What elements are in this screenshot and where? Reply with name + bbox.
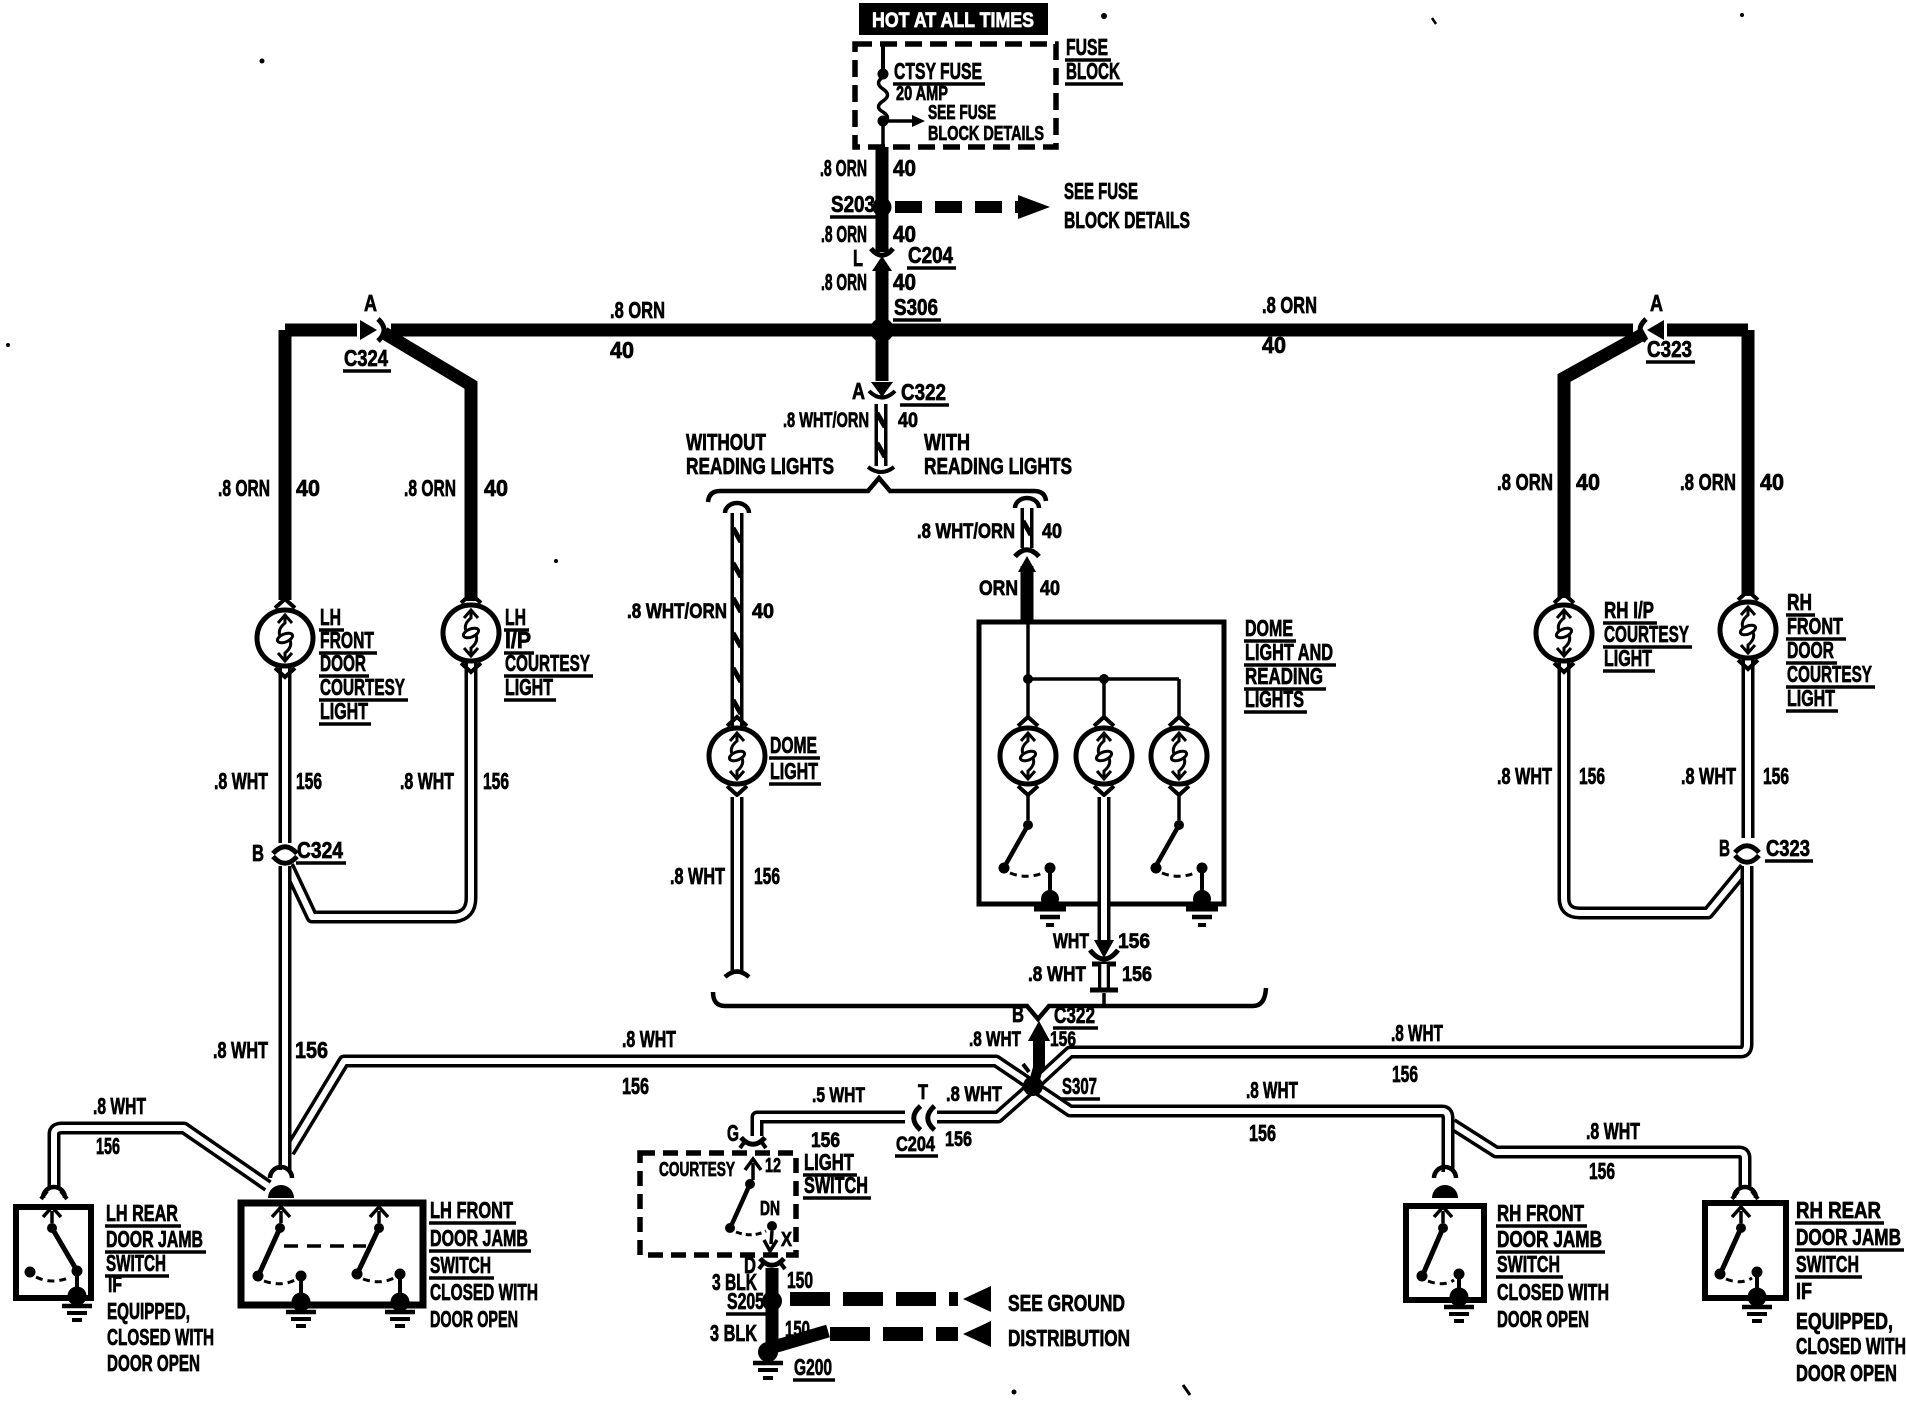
svg-text:BLOCK DETAILS: BLOCK DETAILS (1064, 207, 1190, 233)
svg-text:.8 WHT: .8 WHT (1391, 1020, 1443, 1046)
svg-text:LIGHTS: LIGHTS (1245, 686, 1304, 712)
svg-text:WITHOUT: WITHOUT (686, 429, 766, 455)
svg-text:RH I/P: RH I/P (1604, 597, 1654, 623)
svg-text:S306: S306 (894, 294, 938, 320)
svg-text:A: A (852, 378, 865, 404)
noise specks (1101, 13, 1107, 19)
svg-text:C322: C322 (901, 379, 946, 405)
wire: .8 WHT 156 RH front door light to C323 (1742, 656, 1755, 838)
svg-text:156: 156 (296, 768, 322, 794)
svg-text:C324: C324 (297, 837, 343, 863)
connector cap (with reading lights branch) (1015, 498, 1039, 508)
wire: .8 ORN 40 to RH front door courtesy light (1742, 330, 1755, 596)
svg-text:40: 40 (1042, 520, 1062, 543)
svg-text:G200: G200 (794, 1354, 832, 1380)
ground: LH front 1 (286, 1310, 316, 1315)
svg-text:150: 150 (787, 1267, 813, 1293)
junction: fuse top (878, 69, 889, 80)
svg-text:S205: S205 (727, 1288, 764, 1314)
ground stud (1193, 890, 1211, 908)
svg-text:156: 156 (1579, 763, 1605, 789)
svg-text:.8 ORN: .8 ORN (821, 269, 867, 295)
svg-text:DOME: DOME (1245, 615, 1293, 641)
connector C204 pin T (in-line) (905, 1106, 937, 1130)
svg-text:READING LIGHTS: READING LIGHTS (686, 453, 834, 479)
svg-text:.8 ORN: .8 ORN (820, 155, 867, 181)
svg-text:156: 156 (1122, 963, 1152, 986)
brace: reading lights merge (bottom) (713, 988, 1266, 1019)
svg-text:DOOR JAMB: DOOR JAMB (1796, 1224, 1901, 1250)
svg-text:C324: C324 (344, 345, 388, 371)
switch: RH reading light (1177, 796, 1181, 820)
arrow: see fuse block details (inside box) (883, 119, 912, 123)
wire: .8 WHT 156 LH I/P light to C324 (288, 662, 471, 917)
svg-text:.8 ORN: .8 ORN (218, 475, 270, 501)
svg-text:.8 WHT: .8 WHT (1497, 763, 1552, 789)
lamp: RH I/P courtesy light (1536, 594, 1592, 672)
ground (1034, 907, 1066, 912)
svg-text:.8 WHT/ORN: .8 WHT/ORN (917, 520, 1015, 543)
svg-text:.8 ORN: .8 ORN (1262, 292, 1317, 318)
brace: without/with reading lights split (708, 478, 1046, 502)
svg-text:.8 WHT: .8 WHT (1586, 1118, 1640, 1144)
svg-text:SWITCH: SWITCH (804, 1172, 868, 1198)
svg-text:SEE FUSE: SEE FUSE (1064, 178, 1138, 204)
wire: .8 ORN 40 to LH front door courtesy light (279, 330, 292, 600)
svg-text:CLOSED WITH: CLOSED WITH (1497, 1279, 1609, 1305)
svg-text:L: L (853, 245, 863, 271)
svg-text:DOOR: DOOR (320, 650, 366, 676)
junction (1099, 674, 1109, 684)
svg-text:G: G (727, 1120, 739, 1146)
svg-text:DOME: DOME (770, 732, 817, 758)
svg-text:C322: C322 (1054, 1002, 1095, 1028)
svg-text:C323: C323 (1647, 336, 1692, 362)
ground: RH rear (1742, 1305, 1772, 1310)
fuse block dashed box (855, 44, 1056, 147)
connector: LH rear door jamb switch (43, 1187, 65, 1198)
dome light and reading lights module box (979, 622, 1224, 904)
off-page arrow: see fuse block details (895, 201, 1018, 213)
svg-text:B: B (1012, 1001, 1024, 1027)
svg-text:.8 WHT: .8 WHT (670, 863, 725, 889)
wire: inside box feed (1026, 622, 1030, 679)
wire: .8 WHT 156 RH I/P light to C323 (1564, 658, 1745, 913)
ground stud (391, 1293, 410, 1312)
wire: .8 ORN 40 to RH I/P courtesy light (1564, 333, 1645, 598)
svg-text:156: 156 (1589, 1158, 1615, 1184)
svg-text:X: X (781, 1229, 793, 1251)
svg-text:.8 WHT/ORN: .8 WHT/ORN (627, 600, 727, 623)
fuse CTSY FUSE element (squiggle) (879, 77, 888, 123)
svg-text:C323: C323 (1766, 835, 1810, 861)
svg-text:DOOR OPEN: DOOR OPEN (430, 1306, 518, 1332)
in-line connector pair below module (1094, 940, 1114, 958)
RH rear door jamb switch box (1705, 1203, 1786, 1298)
lamp: RH front door courtesy light (1720, 591, 1776, 669)
switch: courtesy contact (745, 1159, 761, 1170)
svg-text:RH REAR: RH REAR (1796, 1197, 1881, 1223)
svg-text:DOOR OPEN: DOOR OPEN (1796, 1360, 1897, 1386)
connector cap (without reading lights branch) (725, 503, 749, 513)
svg-text:COURTESY: COURTESY (1787, 661, 1872, 687)
svg-text:DOOR JAMB: DOOR JAMB (430, 1225, 528, 1251)
wire: .8 WHT 156 C323 to S307 (1033, 866, 1747, 1086)
svg-text:.8 WHT: .8 WHT (969, 1028, 1021, 1051)
svg-text:.8 ORN: .8 ORN (821, 221, 867, 247)
svg-text:C204: C204 (896, 1133, 935, 1156)
svg-text:SWITCH: SWITCH (1796, 1251, 1859, 1277)
wire: WHT 156 module dome lamp out (1098, 797, 1111, 942)
wire: .8 WHT/ORN 40 C322 to split (875, 404, 888, 466)
connector C204 pin L (in-line) (871, 249, 893, 256)
wire: .8 WHT 156 S307 to LH door switches (289, 1061, 1033, 1152)
lamp: reading light LH (1000, 717, 1056, 795)
wire: .8 WHT 156 LH front door light to C324 (279, 668, 292, 845)
ground stud (1748, 1288, 1767, 1307)
svg-text:LIGHT: LIGHT (320, 698, 368, 724)
connector: LH front door jamb switch cap (270, 1167, 292, 1178)
svg-text:SWITCH: SWITCH (430, 1252, 491, 1278)
svg-text:40: 40 (1760, 469, 1784, 495)
label: HOT AT ALL TIMES box (859, 3, 1048, 35)
connector C323 pin A (1633, 321, 1667, 340)
svg-text:40: 40 (484, 475, 508, 501)
svg-text:.8 ORN: .8 ORN (1680, 469, 1736, 495)
wire: .8 WHT 156 C324 to LH front door jamb switch (279, 866, 292, 1170)
connector C322 pin B (up arrow) (1028, 1021, 1050, 1041)
light switch dashed box (640, 1153, 796, 1255)
connector C322 pin A (871, 382, 893, 397)
svg-text:156: 156 (1118, 930, 1150, 953)
wire: .8 ORN 40 to LH I/P courtesy light (384, 333, 471, 601)
svg-text:S203: S203 (831, 191, 875, 217)
svg-text:.8 WHT: .8 WHT (1028, 963, 1086, 986)
svg-text:12: 12 (765, 1155, 781, 1177)
svg-text:DOOR OPEN: DOOR OPEN (1497, 1306, 1589, 1332)
svg-text:IF: IF (1796, 1278, 1812, 1304)
wire: .8 WHT/ORN 40 to connector (1021, 508, 1034, 548)
svg-text:HOT AT ALL TIMES: HOT AT ALL TIMES (872, 9, 1034, 32)
RH front door jamb switch box (1406, 1206, 1484, 1300)
svg-text:.5 WHT: .5 WHT (812, 1084, 865, 1107)
svg-text:DISTRIBUTION: DISTRIBUTION (1008, 1325, 1130, 1351)
junction: fuse bottom (878, 116, 889, 127)
svg-text:SWITCH: SWITCH (1497, 1251, 1560, 1277)
LH rear door jamb switch box (16, 1207, 91, 1298)
wire: .8 WHT 156 branch to LH rear door jamb switch (54, 1128, 268, 1188)
splice S203 (873, 198, 892, 217)
wire: .8 ORN 40 C204 to S306 (876, 271, 889, 330)
lamp: dome light (709, 717, 765, 795)
ground G: LH rear (62, 1304, 92, 1309)
splice S307 (1023, 1076, 1043, 1096)
ground: RH front (1444, 1305, 1474, 1310)
svg-text:WITH: WITH (924, 429, 970, 455)
svg-text:LH REAR: LH REAR (106, 1200, 178, 1226)
svg-text:156: 156 (295, 1037, 328, 1063)
svg-text:T: T (918, 1081, 928, 1104)
svg-text:156: 156 (96, 1133, 120, 1159)
svg-text:LIGHT: LIGHT (1787, 685, 1835, 711)
connector: RH rear door jamb switch (1734, 1187, 1756, 1198)
wire: lamp feed rail (1028, 677, 1179, 681)
svg-text:FUSE: FUSE (1066, 34, 1108, 60)
svg-text:COURTESY: COURTESY (1604, 621, 1689, 647)
svg-text:.8 ORN: .8 ORN (404, 475, 456, 501)
svg-text:COURTESY: COURTESY (505, 650, 590, 676)
svg-text:156: 156 (1392, 1061, 1418, 1087)
ground: LH front 2 (385, 1310, 415, 1315)
wire: 3 BLK 150 light switch to G200 (766, 1268, 779, 1350)
svg-text:.8 WHT: .8 WHT (946, 1083, 1002, 1106)
svg-text:156: 156 (1249, 1120, 1276, 1146)
svg-text:CLOSED WITH: CLOSED WITH (1796, 1333, 1906, 1359)
svg-text:156: 156 (754, 863, 780, 889)
svg-text:C204: C204 (908, 242, 953, 268)
svg-text:DOOR OPEN: DOOR OPEN (107, 1350, 200, 1376)
svg-text:A: A (364, 290, 377, 316)
lamp: reading light RH (1151, 717, 1207, 795)
svg-text:156: 156 (1763, 763, 1789, 789)
svg-text:40: 40 (1040, 577, 1060, 600)
svg-text:COURTESY: COURTESY (659, 1159, 735, 1181)
svg-text:DOOR: DOOR (1787, 637, 1834, 663)
wire: .8 WHT 156 S307 to RH front door jamb switch (1033, 1086, 1448, 1172)
svg-text:BLOCK DETAILS: BLOCK DETAILS (928, 123, 1044, 145)
wire: .8 ORN 40 fuse to S203 (876, 147, 889, 252)
svg-text:FRONT: FRONT (1787, 613, 1843, 639)
svg-text:CLOSED WITH: CLOSED WITH (430, 1279, 538, 1305)
connector pin G (741, 1138, 765, 1145)
svg-text:SEE GROUND: SEE GROUND (1008, 1290, 1125, 1316)
svg-text:DN: DN (760, 1198, 780, 1220)
svg-text:40: 40 (296, 475, 320, 501)
svg-text:.8 WHT: .8 WHT (213, 1037, 268, 1063)
ground stud (1041, 890, 1059, 908)
svg-text:SEE FUSE: SEE FUSE (928, 102, 996, 124)
svg-text:B: B (1719, 835, 1730, 861)
svg-text:156: 156 (483, 768, 509, 794)
svg-text:DOOR JAMB: DOOR JAMB (1497, 1226, 1602, 1252)
svg-text:ORN: ORN (979, 577, 1018, 600)
junction (1023, 674, 1033, 684)
splice S205 (762, 1291, 782, 1311)
connector C324 pin A (357, 321, 391, 340)
svg-text:.8 WHT: .8 WHT (622, 1026, 676, 1052)
svg-text:READING LIGHTS: READING LIGHTS (924, 453, 1072, 479)
svg-text:40: 40 (893, 155, 916, 181)
svg-text:LIGHT: LIGHT (505, 674, 553, 700)
svg-text:.8 WHT: .8 WHT (400, 768, 454, 794)
wire: .8 WHT 156 branch to RH rear door jamb switch (1452, 1124, 1745, 1186)
svg-text:BLOCK: BLOCK (1066, 58, 1120, 84)
svg-text:CLOSED WITH: CLOSED WITH (107, 1324, 214, 1350)
svg-text:WHT: WHT (1053, 930, 1089, 953)
ground stud (68, 1287, 87, 1306)
svg-text:40: 40 (893, 269, 916, 295)
wire: .5 WHT 156 S307 to light switch (757, 1086, 1033, 1136)
svg-text:RH FRONT: RH FRONT (1497, 1200, 1584, 1226)
svg-text:40: 40 (1576, 469, 1600, 495)
svg-text:B: B (252, 840, 264, 866)
svg-text:EQUIPPED,: EQUIPPED, (107, 1298, 190, 1324)
svg-text:.8 ORN: .8 ORN (610, 297, 665, 323)
connector C323 pin B (1738, 842, 1756, 862)
ground stud (292, 1293, 311, 1312)
svg-text:156: 156 (622, 1073, 649, 1099)
wire: ORN 40 into dome/reading lights box (1021, 566, 1034, 622)
svg-text:.8 WHT: .8 WHT (1681, 763, 1736, 789)
wire: .8 ORN 40 main bus (285, 324, 1748, 337)
lamp: LH front door courtesy light (257, 599, 313, 677)
connector C324 pin B (276, 843, 294, 863)
svg-text:EQUIPPED,: EQUIPPED, (1796, 1308, 1893, 1334)
svg-text:LIGHT: LIGHT (770, 758, 818, 784)
svg-text:3 BLK: 3 BLK (710, 1320, 757, 1346)
svg-text:LIGHT: LIGHT (1604, 645, 1652, 671)
svg-text:LIGHT AND: LIGHT AND (1245, 639, 1333, 665)
ground (1186, 907, 1218, 912)
in-line connector below striped wire (1015, 550, 1039, 557)
svg-text:A: A (1650, 290, 1663, 316)
ground G200 (753, 1361, 783, 1366)
off-page arrow: see ground distribution (S205) (790, 1292, 958, 1306)
wire: .8 WHT 156 dome light to merge (731, 797, 744, 972)
svg-text:.8 WHT: .8 WHT (93, 1093, 146, 1119)
ground stud (1450, 1288, 1469, 1307)
lamp: dome lamp (module) (1076, 717, 1132, 795)
mechanical link (284, 1244, 366, 1248)
svg-text:DOOR JAMB: DOOR JAMB (106, 1226, 203, 1252)
connector C322 pin B arrow (redraw over wires) (1028, 1021, 1050, 1041)
svg-text:LH FRONT: LH FRONT (430, 1197, 513, 1223)
svg-text:40: 40 (610, 337, 634, 363)
svg-text:COURTESY: COURTESY (320, 674, 405, 700)
connector: RH front door jamb switch cap (1434, 1167, 1456, 1178)
wire: .8 ORN stub to C322 (876, 336, 889, 381)
svg-text:40: 40 (752, 600, 774, 623)
svg-text:40: 40 (1262, 332, 1286, 358)
lamp: LH I/P courtesy light (443, 594, 499, 672)
wire: .8 WHT/ORN 40 to dome light (731, 513, 744, 727)
svg-text:S307: S307 (1062, 1073, 1097, 1099)
splice S306 (870, 318, 894, 342)
svg-text:.8 WHT: .8 WHT (1246, 1077, 1298, 1103)
wire into fuse (881, 46, 885, 74)
LH front door jamb switch box (double) (241, 1203, 423, 1305)
ground G200 stud (758, 1342, 778, 1362)
svg-text:.8 ORN: .8 ORN (1497, 469, 1553, 495)
svg-text:.8 WHT: .8 WHT (214, 768, 268, 794)
svg-text:IF: IF (108, 1271, 122, 1297)
svg-text:40: 40 (898, 409, 918, 432)
svg-text:RH: RH (1787, 589, 1812, 615)
switch: LH reading light (1026, 796, 1030, 820)
svg-text:.8 WHT/ORN: .8 WHT/ORN (783, 409, 869, 432)
off-page arrow: see ground distribution (G200) (770, 1331, 828, 1348)
svg-text:156: 156 (945, 1128, 972, 1151)
svg-text:CTSY FUSE: CTSY FUSE (894, 58, 982, 84)
